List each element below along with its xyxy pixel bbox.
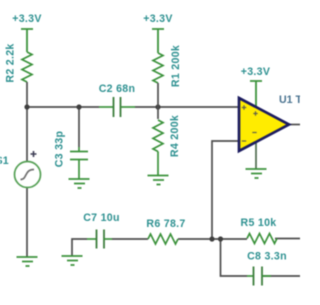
wire main horizontal net y=107 (27, 106, 99, 108)
svg-text:+3.3V: +3.3V (241, 66, 270, 78)
wire R6 to R5 bottom net (178, 238, 247, 240)
wire C2 to op-amp (135, 106, 239, 108)
wire C8 branch down and right (221, 239, 248, 276)
op-amp U1 triangle (239, 98, 289, 151)
wire C3 branch down (78, 107, 80, 147)
resistor R2 (22, 52, 32, 107)
capacitor C3 (70, 147, 88, 179)
svg-text:R4 200k: R4 200k (169, 115, 181, 157)
wire feedback vertical to inverting input (212, 141, 239, 239)
source S1 (15, 151, 41, 188)
svg-text:C7 10u: C7 10u (83, 212, 120, 224)
resistor R5 (247, 234, 277, 244)
svg-text:U1 T: U1 T (279, 94, 300, 106)
node junction feedback left (209, 236, 214, 241)
resistor R4 (153, 107, 163, 176)
wire C7 corner to ground (72, 239, 87, 256)
resistor R6 (148, 234, 178, 244)
wire S1 to ground (26, 188, 28, 257)
svg-text:R6 78.7: R6 78.7 (146, 218, 185, 230)
svg-text:C8 3.3n: C8 3.3n (247, 251, 287, 263)
svg-text:+3.3V: +3.3V (143, 13, 172, 25)
capacitor C2 (99, 97, 135, 117)
wire C7 to R6 (112, 238, 148, 240)
ground below S1 (17, 257, 38, 266)
node junction at C3 (76, 104, 81, 109)
ground below C3 (69, 179, 90, 188)
node junction feedback right (218, 236, 223, 241)
node junction at R1/R4 (155, 104, 160, 109)
svg-text:R2 2.2k: R2 2.2k (5, 43, 17, 82)
capacitor C8 (247, 267, 271, 286)
svg-text:+3.3V: +3.3V (12, 13, 41, 25)
power +3.3V symbol above R1 (143, 13, 172, 53)
capacitor C7 (87, 230, 112, 249)
power +3.3V symbol above R2 (12, 13, 41, 52)
wire C8 right to edge (262, 275, 300, 277)
power +3.3V symbol above op-amp (241, 66, 270, 108)
op-amp U1 V- pin to ground (255, 138, 257, 169)
wire op-amp output (289, 124, 300, 126)
ground below op-amp (246, 169, 267, 178)
svg-text:R1 200k: R1 200k (170, 45, 182, 87)
resistor R1 (153, 53, 163, 107)
svg-text:C2 68n: C2 68n (99, 83, 136, 95)
node junction at R2/S1 (24, 104, 29, 109)
svg-text:C3 33p: C3 33p (54, 131, 66, 168)
wire R2 column down to S1 (26, 107, 28, 161)
wire R5 right to edge (275, 238, 300, 240)
ground below C7 left lead (62, 256, 83, 265)
ground below R4 (148, 176, 169, 185)
svg-text:S1: S1 (0, 155, 9, 167)
svg-text:R5 10k: R5 10k (241, 217, 277, 229)
